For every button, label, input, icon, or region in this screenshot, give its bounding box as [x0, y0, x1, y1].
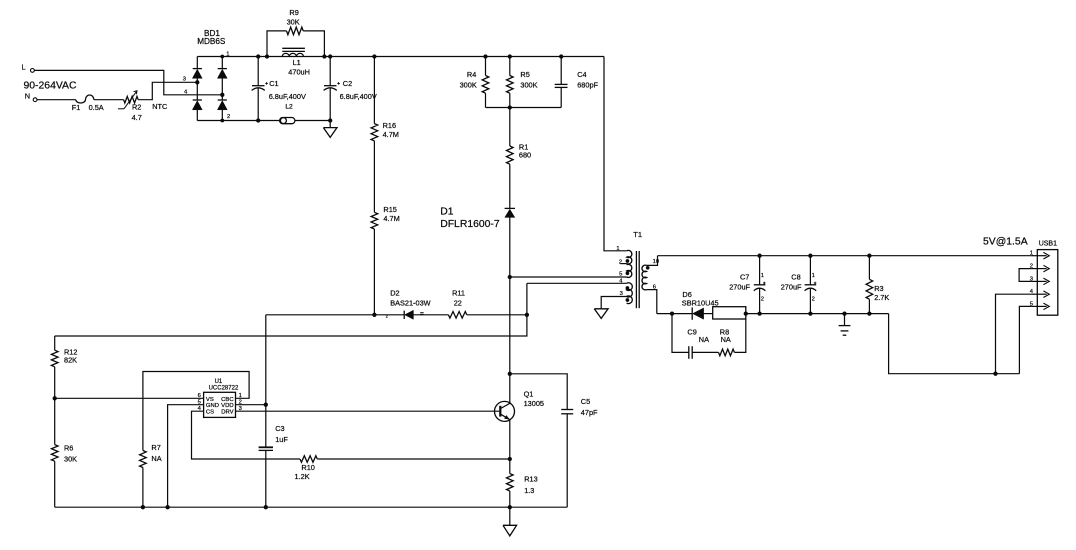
svg-text:SBR10U45: SBR10U45 — [682, 298, 719, 307]
svg-text:D2: D2 — [390, 289, 399, 298]
junction C8 bottom — [808, 311, 812, 315]
capacitor C5 47pF — [510, 374, 598, 507]
svg-text:VDD: VDD — [221, 403, 233, 409]
junction R4 top — [483, 54, 487, 58]
svg-text:2: 2 — [619, 259, 622, 265]
svg-text:GND: GND — [206, 403, 219, 409]
svg-text:C8: C8 — [791, 272, 800, 281]
svg-text:NTC: NTC — [152, 102, 168, 111]
svg-text:UCC28722: UCC28722 — [209, 385, 239, 391]
junction L1 right — [322, 54, 326, 58]
thermistor R2 (NTC) — [118, 91, 168, 122]
snubber C9 NA — [672, 314, 719, 359]
svg-text:D1: D1 — [440, 207, 454, 218]
diode D1 DFLR1600-7 — [440, 207, 515, 231]
diode D6 SBR10U45 — [682, 290, 719, 320]
fuse F1 — [72, 95, 104, 112]
op-amp U1 UCC28722 controller — [198, 379, 242, 417]
node N (neutral input terminal) — [25, 92, 37, 102]
capacitor C1 6.8uF 400V — [252, 57, 306, 121]
junction R16 top — [372, 54, 376, 58]
wire primary pin 4 — [527, 282, 627, 284]
junction snubber left — [670, 311, 674, 315]
svg-text:DRV: DRV — [221, 409, 233, 415]
junction R13 at rail — [508, 505, 512, 509]
junction C8 top — [808, 254, 812, 258]
svg-text:R7: R7 — [151, 443, 160, 452]
svg-text:300K: 300K — [460, 80, 477, 89]
svg-text:470uH: 470uH — [288, 67, 310, 76]
svg-text:680pF: 680pF — [577, 80, 598, 89]
svg-text:5V@1.5A: 5V@1.5A — [983, 237, 1028, 248]
resistor R9 30K (parallel with L1) — [267, 8, 324, 57]
junction C4 top — [559, 54, 563, 58]
junction clamp bus — [508, 105, 512, 109]
bridge rectifier BD1 MDB6S — [183, 29, 230, 121]
svg-text:1: 1 — [812, 273, 815, 279]
svg-text:R3: R3 — [874, 284, 883, 293]
wire primary pin 5 — [510, 276, 627, 278]
svg-text:USB1: USB1 — [1039, 241, 1057, 248]
svg-text:4.7M: 4.7M — [383, 214, 399, 223]
wire aux pin 3 to ground — [601, 297, 626, 309]
ground (primary) — [503, 507, 517, 536]
svg-text:680: 680 — [519, 151, 531, 160]
wire R1 to D1 — [509, 164, 511, 208]
capacitor C7 270uF — [729, 256, 765, 314]
wire DC+ rail — [222, 57, 604, 252]
svg-text:1: 1 — [1030, 251, 1033, 257]
junction C1 top — [256, 54, 260, 58]
svg-text:NA: NA — [699, 335, 709, 344]
junction primary pin5 tap — [508, 275, 512, 279]
svg-text:F1: F1 — [72, 103, 81, 112]
svg-text:6.8uF,400V: 6.8uF,400V — [340, 92, 377, 101]
junction C5 top tap — [508, 372, 512, 376]
junction R3 bottom — [867, 311, 871, 315]
wire return to USB pin 5 — [1019, 306, 1031, 373]
svg-text:47pF: 47pF — [581, 408, 598, 417]
capacitor C4 680pF — [555, 57, 599, 108]
svg-text:L: L — [22, 62, 26, 71]
svg-text:R6: R6 — [64, 444, 73, 453]
wire output return — [889, 314, 1020, 374]
svg-text:82K: 82K — [64, 356, 77, 365]
resistor R5 300K — [507, 57, 538, 108]
wire D1 to drain node — [509, 217, 511, 403]
junction VDD node — [264, 403, 268, 407]
svg-text:DFLR1600-7: DFLR1600-7 — [440, 219, 500, 230]
svg-text:4.7M: 4.7M — [383, 130, 399, 139]
resistor R7 NA — [140, 443, 162, 468]
svg-text:2: 2 — [761, 297, 764, 303]
svg-text:R10: R10 — [301, 463, 314, 472]
wire primary ground rail — [55, 506, 568, 508]
svg-text:C3: C3 — [275, 424, 284, 433]
svg-text:0.5A: 0.5A — [89, 103, 104, 112]
wire VDD pin to C3 — [236, 404, 266, 406]
svg-text:4.7: 4.7 — [132, 113, 142, 122]
ground (secondary) — [839, 314, 851, 336]
svg-text:CBC: CBC — [221, 397, 234, 403]
svg-text:30K: 30K — [64, 455, 77, 464]
junction CS at emitter — [508, 457, 512, 461]
inductor L1 470uH — [282, 48, 310, 76]
svg-text:R13: R13 — [524, 475, 537, 484]
wire 5V output rail — [658, 255, 1032, 257]
svg-text:R15: R15 — [383, 205, 396, 214]
svg-text:1.2K: 1.2K — [295, 472, 310, 481]
resistor R15 4.7M — [371, 205, 400, 229]
ferrite bead L2 — [280, 104, 295, 124]
wire GND pin to rail — [168, 405, 204, 508]
junction bridge pin 3 — [195, 80, 199, 84]
junction secondary ground tap — [842, 311, 846, 315]
svg-text:C9: C9 — [687, 328, 696, 337]
wire CS pin trace — [192, 411, 510, 459]
junction L1 left — [265, 54, 269, 58]
svg-text:MDB6S: MDB6S — [197, 37, 226, 46]
svg-text:NA: NA — [721, 335, 731, 344]
svg-text:BAS21-03W: BAS21-03W — [390, 298, 430, 307]
junction bridge pin 2 rail — [220, 119, 224, 123]
svg-text:1.3: 1.3 — [524, 486, 534, 495]
ground (bulk negative) — [323, 121, 337, 138]
svg-text:13005: 13005 — [524, 399, 544, 408]
svg-text:R5: R5 — [520, 70, 529, 79]
wire R15 to D2 node — [373, 229, 375, 315]
svg-text:22: 22 — [454, 298, 462, 307]
wire rail to R16 — [373, 57, 375, 124]
wire clamp bottom bus — [486, 107, 562, 109]
svg-text:2: 2 — [812, 297, 815, 303]
svg-text:1: 1 — [616, 246, 619, 252]
svg-text:R11: R11 — [452, 289, 465, 298]
resistor R1 680 — [507, 108, 532, 165]
resistor R4 300K — [460, 57, 489, 108]
wire R2 to bridge pin 3 — [138, 82, 197, 99]
svg-text:C4: C4 — [577, 70, 586, 79]
junction GND pin at rail — [165, 505, 169, 509]
wire CBC pin to R7 — [143, 372, 249, 451]
junction C2 top — [328, 54, 332, 58]
svg-text:6.8uF,400V: 6.8uF,400V — [269, 92, 306, 101]
svg-text:L2: L2 — [285, 104, 293, 111]
svg-text:R9: R9 — [289, 8, 298, 17]
wire VDD supply column — [265, 315, 267, 448]
svg-text:CS: CS — [206, 409, 214, 415]
svg-text:L1: L1 — [293, 58, 301, 67]
svg-text:T1: T1 — [633, 230, 642, 239]
ground (aux winding) — [594, 309, 608, 319]
junction bridge pin 4 — [220, 93, 224, 97]
transformer T1 — [605, 230, 660, 308]
junction aux line at row — [525, 313, 529, 317]
junction return split — [993, 372, 997, 376]
svg-text:C1: C1 — [269, 79, 278, 88]
wire secondary pin 10 to output rail — [647, 256, 658, 266]
junction C7 bottom — [757, 311, 761, 315]
connector USB1 — [1030, 241, 1058, 316]
svg-text:6: 6 — [198, 393, 201, 399]
svg-text:3: 3 — [183, 77, 186, 83]
resistor R11 22 — [448, 289, 466, 319]
svg-text:5: 5 — [1030, 301, 1033, 307]
junction R15 column at row — [372, 313, 376, 317]
junction bridge pin 1 rail — [220, 55, 224, 59]
junction VS divider tap — [53, 396, 57, 400]
wire secondary return row — [657, 313, 889, 315]
svg-text:VS: VS — [206, 397, 214, 403]
junction C1 bottom — [256, 118, 260, 122]
capacitor C8 270uF — [781, 256, 817, 314]
svg-text:R2: R2 — [132, 102, 141, 111]
wire bridge negative rail — [222, 120, 330, 122]
diode D2 BAS21-03W — [386, 289, 431, 320]
resistor R13 1.3 — [507, 474, 538, 495]
wire VS trace — [55, 397, 204, 399]
svg-text:2.7K: 2.7K — [874, 293, 889, 302]
wire emitter to CS node — [509, 420, 511, 459]
wire L to bridge pin 4 — [34, 70, 222, 94]
svg-text:NA: NA — [151, 454, 161, 463]
junction C7 top — [757, 254, 761, 258]
svg-text:270uF: 270uF — [729, 282, 750, 291]
junction R5 top — [508, 54, 512, 58]
svg-text:1uF: 1uF — [275, 435, 288, 444]
wire R12 to VS node — [54, 367, 56, 399]
wire R6 to ground rail — [54, 461, 56, 507]
shunt element (D6 series box) — [713, 307, 746, 319]
wire DRV trace to Q1 base — [236, 410, 501, 412]
resistor R3 2.7K — [866, 256, 889, 314]
wire N to fuse F1 — [37, 99, 76, 101]
svg-text:Q1: Q1 — [524, 389, 534, 398]
svg-text:270uF: 270uF — [781, 282, 802, 291]
capacitor C2 6.8uF 400V — [324, 57, 377, 121]
svg-text:2: 2 — [386, 315, 388, 319]
wire R7 to ground rail — [142, 468, 144, 508]
svg-text:C5: C5 — [581, 397, 590, 406]
resistor R10 1.2K — [295, 456, 318, 482]
wire aux sense line — [55, 283, 527, 336]
svg-text:2: 2 — [227, 114, 230, 120]
wire R13 to ground rail — [509, 491, 511, 507]
wire F1 to R2 — [94, 99, 124, 101]
wire R16 to R15 — [373, 141, 375, 212]
wire CS node to R13 — [509, 459, 511, 474]
resistor R12 82K — [51, 336, 77, 367]
wire secondary pin 6 down — [647, 290, 657, 314]
wire return to USB pin 4 — [996, 294, 1032, 374]
wire C3 to ground rail — [265, 450, 267, 507]
svg-text:90-264VAC: 90-264VAC — [24, 81, 77, 92]
capacitor C3 1uF — [259, 424, 289, 450]
svg-text:C2: C2 — [343, 79, 352, 88]
junction C2 bottom — [328, 118, 332, 122]
wire USB pins 2-3 bracket — [1019, 269, 1031, 282]
resistor R6 30K — [51, 398, 77, 463]
junction R3 top — [867, 254, 871, 258]
svg-text:U1: U1 — [215, 379, 223, 385]
svg-text:R16: R16 — [383, 121, 396, 130]
transistor Q1 13005 — [495, 389, 545, 421]
svg-text:300K: 300K — [520, 80, 537, 89]
junction C3 at rail — [264, 505, 268, 509]
svg-text:30K: 30K — [287, 17, 300, 26]
wire VDD feed row — [266, 314, 527, 316]
svg-text:R4: R4 — [467, 70, 476, 79]
snubber R8 NA — [719, 319, 746, 356]
svg-text:C7: C7 — [740, 272, 749, 281]
resistor R16 4.7M — [371, 121, 399, 141]
junction box right — [744, 311, 748, 315]
svg-text:N: N — [25, 92, 30, 101]
junction R7 at rail — [141, 505, 145, 509]
node L (line input terminal) — [22, 62, 35, 72]
svg-text:1: 1 — [761, 273, 764, 279]
